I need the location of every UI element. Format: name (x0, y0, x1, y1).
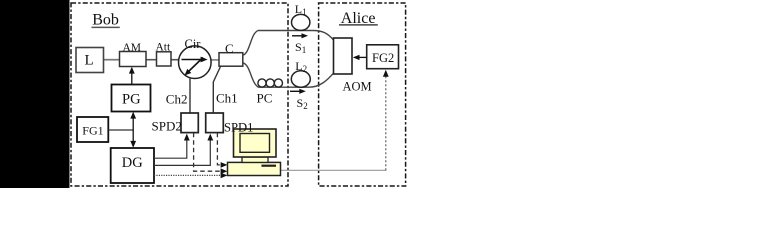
dashed SPD1 to computer (217, 133, 227, 168)
pulse generator PG (112, 85, 151, 112)
S2 arrow (290, 89, 308, 112)
svg-text:Att: Att (156, 42, 172, 54)
delay generator DG (111, 148, 154, 183)
fiber loop L2 (291, 59, 310, 87)
svg-text:AOM: AOM (343, 79, 372, 93)
circulator Cir (179, 37, 212, 79)
wire AM to Att (146, 59, 157, 61)
wire Att to Cir (171, 59, 179, 61)
computer (228, 129, 281, 176)
laser L (76, 48, 104, 73)
arrow FG2 to AOM (353, 55, 367, 60)
svg-text:L: L (85, 53, 94, 69)
dashed SPD2 to computer (194, 133, 228, 174)
dotted computer to FG2 (281, 70, 389, 171)
fiber loop L1 (292, 2, 310, 30)
Alice region border (319, 3, 406, 186)
svg-text:Bob: Bob (92, 12, 119, 29)
polarization controller PC (258, 79, 283, 87)
svg-text:C: C (225, 41, 234, 56)
svg-text:PG: PG (122, 91, 141, 107)
svg-text:FG1: FG1 (82, 123, 103, 137)
svg-text:Cir: Cir (185, 37, 202, 51)
S1 arrow (292, 33, 308, 55)
Bob region border (71, 3, 288, 186)
arrow PG to AM (129, 67, 135, 85)
coupler C (219, 41, 243, 66)
wire Cir to C (211, 59, 219, 61)
svg-text:SPD2: SPD2 (152, 118, 182, 133)
svg-text:S1: S1 (295, 40, 306, 55)
wire L to AM (104, 59, 120, 61)
Alice label (339, 10, 378, 27)
svg-text:L2: L2 (295, 59, 307, 74)
Ch2 line (Cir to SPD2) (189, 78, 191, 114)
lower fiber (243, 63, 334, 87)
svg-text:AM: AM (123, 42, 142, 54)
wire DG to SPD1 (154, 134, 213, 166)
AOM (334, 38, 372, 93)
svg-text:S2: S2 (297, 96, 308, 111)
svg-text:SPD1: SPD1 (224, 121, 253, 135)
Ch1 line (C to SPD1) (213, 67, 220, 114)
svg-text:PC: PC (257, 91, 273, 106)
svg-text:FG2: FG2 (372, 51, 394, 65)
FG2 (367, 45, 399, 69)
dotted DG to computer (154, 173, 227, 179)
wire FG1 to PG-DG link (108, 129, 133, 131)
double arrow PG-DG (130, 112, 136, 148)
Bob label (92, 12, 120, 29)
SPD1 box (206, 113, 224, 133)
black scan strip (0, 0, 70, 188)
svg-text:Ch2: Ch2 (166, 91, 188, 106)
SPD2 box (181, 113, 198, 133)
upper fiber (243, 31, 334, 56)
wire DG to SPD2 (154, 134, 190, 159)
attenuator Att (156, 42, 172, 67)
svg-text:Ch1: Ch1 (216, 91, 238, 106)
svg-text:DG: DG (122, 155, 143, 171)
svg-text:L1: L1 (295, 2, 307, 17)
amplitude modulator AM (120, 42, 147, 67)
FG1 (77, 117, 108, 142)
